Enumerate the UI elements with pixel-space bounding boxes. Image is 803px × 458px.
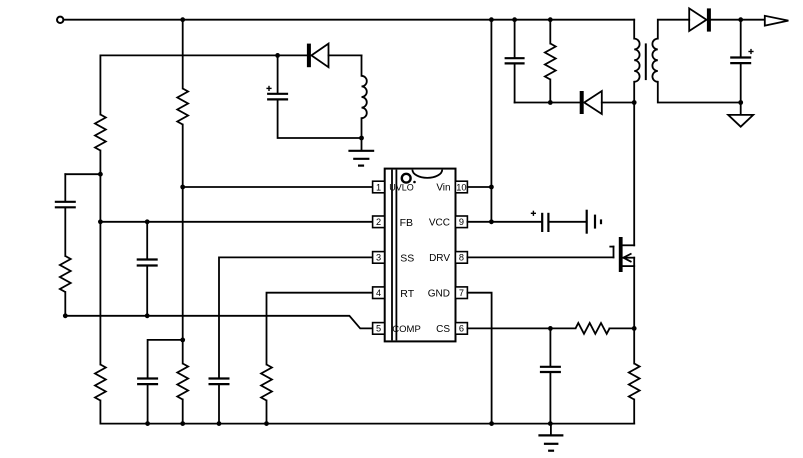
diode D1 bbox=[307, 44, 329, 68]
inductor L1 bbox=[362, 76, 367, 118]
wire L1 bottom bbox=[361, 118, 363, 138]
svg-text:Vin: Vin bbox=[436, 183, 450, 194]
node jog y340 bbox=[180, 338, 185, 343]
node bus/GND pin bbox=[489, 421, 494, 426]
wire C4 bottom bbox=[218, 385, 220, 424]
resistor R8 bbox=[576, 323, 610, 334]
wire pin7 GND down bbox=[467, 293, 491, 424]
output arrow terminal bbox=[765, 16, 789, 26]
svg-text:6: 6 bbox=[459, 324, 464, 334]
wire SS line bbox=[219, 257, 373, 378]
pin 5 box bbox=[373, 323, 385, 335]
node aux bottom bbox=[359, 136, 364, 141]
pin 8 box bbox=[455, 252, 467, 264]
resistor R3 bbox=[60, 256, 71, 292]
svg-text:4: 4 bbox=[376, 288, 381, 298]
node top rail / Vin feed junction bbox=[489, 17, 494, 22]
transformer T1 secondary bbox=[652, 39, 657, 82]
wire C8 bottom bbox=[549, 373, 551, 424]
wire C5 bottom + aux bottom bbox=[278, 100, 362, 138]
capacitor C1 bbox=[55, 202, 76, 208]
wire bottom ground bus bbox=[100, 423, 634, 425]
wire x=100 bottom bbox=[99, 401, 101, 424]
node CS filter bbox=[548, 326, 553, 331]
wire jog y=174 bbox=[65, 173, 100, 175]
wire UVLO column x=183 top bbox=[182, 20, 184, 89]
diode D2 bbox=[580, 91, 602, 114]
pin 3 box bbox=[373, 252, 385, 264]
svg-text:2: 2 bbox=[376, 217, 381, 227]
capacitor C5 polarized bbox=[266, 86, 288, 100]
node output bbox=[738, 17, 743, 22]
svg-text:3: 3 bbox=[376, 253, 381, 263]
node bus/R5 bbox=[180, 421, 185, 426]
node bus/CS filter bbox=[548, 421, 553, 426]
wire aux cap column bbox=[277, 55, 279, 93]
capacitor C8 bbox=[540, 367, 561, 372]
transistor Q1 bbox=[619, 237, 634, 272]
wire snubber bottom to D2 bbox=[515, 102, 580, 104]
wire pin6 CS line bbox=[467, 327, 575, 329]
capacitor C3 bbox=[137, 379, 158, 385]
wire primary top bbox=[633, 20, 635, 39]
transistor Q1 gate bbox=[610, 247, 613, 258]
capacitor C7 polarized VCC bbox=[531, 211, 549, 232]
wire x=183 bottom bbox=[182, 400, 184, 424]
wire C3 bottom bbox=[147, 385, 149, 424]
wire C9 bottom bbox=[740, 64, 742, 103]
node sense column / CS bbox=[632, 326, 637, 331]
wire jog y=340 bbox=[148, 340, 183, 378]
svg-text:UVLO: UVLO bbox=[389, 182, 414, 192]
svg-text:COMP: COMP bbox=[392, 324, 421, 335]
svg-text:5: 5 bbox=[376, 324, 381, 334]
resistor R9 bbox=[629, 364, 640, 400]
op IC U1 body bbox=[385, 169, 456, 342]
pin 4 box bbox=[373, 287, 385, 299]
node output return bbox=[738, 100, 743, 105]
wire CS filter cap column bbox=[549, 328, 551, 366]
node bus/C3 bbox=[145, 421, 150, 426]
resistor R7 bbox=[545, 44, 556, 80]
svg-text:8: 8 bbox=[459, 253, 464, 263]
node top rail / snubber cap junction bbox=[512, 17, 517, 22]
wire pin10 stub bbox=[467, 186, 491, 188]
wire R8 to sense column bbox=[610, 327, 635, 329]
ground sideways VCC bbox=[587, 210, 601, 234]
IC notch bbox=[412, 170, 442, 178]
node top rail / snubber resistor junction bbox=[548, 17, 553, 22]
wire UVLO line bbox=[183, 186, 373, 188]
pin 9 box bbox=[455, 216, 467, 228]
wire R7 bottom bbox=[549, 80, 551, 103]
resistor R5 bbox=[177, 364, 188, 400]
node bus/C4 bbox=[217, 421, 222, 426]
wire aux coil column top bbox=[361, 55, 363, 75]
capacitor C2 bbox=[137, 260, 158, 266]
wire R6 bottom bbox=[266, 401, 268, 424]
diode D3 bbox=[689, 8, 711, 31]
wire C2 column bottom bbox=[146, 266, 148, 316]
node x100/y174 bbox=[98, 172, 103, 177]
wire C2 column top bbox=[146, 222, 148, 259]
ground aux bbox=[348, 138, 374, 166]
wire pin8 DRV to gate bbox=[467, 256, 613, 258]
node UVLO junction bbox=[180, 185, 185, 190]
wire D3 to output bbox=[711, 19, 765, 21]
node aux cap junction bbox=[275, 53, 280, 58]
wire diode D1 to aux coil bbox=[329, 54, 362, 56]
wire pin9 to VCC cap bbox=[467, 221, 541, 223]
svg-text:RT: RT bbox=[400, 288, 414, 300]
pin 1 box bbox=[373, 181, 385, 193]
capacitor C6 bbox=[505, 58, 525, 63]
wire D2 to drain bbox=[602, 102, 634, 104]
wire secondary bottom bbox=[658, 82, 741, 103]
svg-text:VCC: VCC bbox=[429, 218, 450, 229]
wire R3 to comp bus bbox=[64, 292, 66, 316]
resistor R1 bbox=[95, 115, 106, 151]
input terminal bbox=[57, 17, 63, 23]
svg-text:7: 7 bbox=[459, 288, 464, 298]
resistor R6 bbox=[261, 365, 272, 401]
transformer T1 core bbox=[645, 43, 647, 80]
wire x=100 middle bbox=[99, 151, 101, 365]
svg-text:FB: FB bbox=[400, 217, 413, 229]
IC inner double line bbox=[391, 170, 393, 341]
ground output triangle bbox=[728, 103, 753, 127]
wire R9 bottom bbox=[633, 400, 635, 424]
wire top rail bbox=[64, 19, 634, 21]
pin 6 box bbox=[455, 323, 467, 335]
node VCC junction bbox=[489, 219, 494, 224]
wire C7 to ground bbox=[550, 221, 586, 223]
resistor R2 bbox=[177, 89, 188, 125]
transformer T1 primary bbox=[634, 39, 639, 82]
capacitor C9 polarized output bbox=[730, 49, 753, 63]
svg-text:10: 10 bbox=[456, 182, 466, 192]
capacitor C4 bbox=[209, 379, 230, 385]
wire C6 bottom bbox=[514, 64, 516, 103]
svg-text:DRV: DRV bbox=[429, 253, 450, 264]
node snubber RC bottom bbox=[548, 100, 553, 105]
svg-text:SS: SS bbox=[400, 253, 414, 265]
wire output cap column bbox=[740, 20, 742, 57]
wire x=66 to C1 bbox=[64, 174, 66, 201]
node FB / C2 column bbox=[145, 219, 150, 224]
node Vin junction bbox=[489, 185, 494, 190]
node drain / snubber bbox=[632, 100, 637, 105]
pin 10 box bbox=[455, 181, 467, 193]
svg-text:CS: CS bbox=[436, 324, 450, 335]
ground power bottom bbox=[538, 424, 563, 451]
wire secondary top bbox=[658, 20, 689, 39]
node bus/R6 bbox=[264, 421, 269, 426]
node comp bus / C2 bbox=[145, 313, 150, 318]
wire Vin/VCC feed column bbox=[490, 20, 492, 222]
svg-text:9: 9 bbox=[459, 217, 464, 227]
node top rail / UVLO column junction bbox=[180, 17, 185, 22]
wire COMP bus bbox=[65, 316, 372, 329]
wire C1 to R3 bbox=[64, 208, 66, 256]
pin 7 box bbox=[455, 287, 467, 299]
wire snubber cap column bbox=[514, 20, 516, 58]
wire second rail y=55 bbox=[100, 54, 307, 56]
svg-text:GND: GND bbox=[428, 289, 450, 300]
wire snubber R column bbox=[549, 20, 551, 44]
wire x=183 long middle bbox=[182, 125, 184, 364]
node comp bus left corner bbox=[63, 313, 68, 318]
resistor R4 bbox=[95, 365, 106, 401]
pin 2 box bbox=[373, 216, 385, 228]
IC pin1 indicator circle bbox=[402, 174, 411, 183]
wire FB line bbox=[100, 221, 372, 223]
wire primary bottom to drain bbox=[633, 82, 635, 246]
wire left column x=100 upper bbox=[99, 55, 101, 114]
svg-text:1: 1 bbox=[376, 182, 381, 192]
wire source to sense resistor bbox=[633, 258, 635, 364]
node x100/FB bbox=[98, 219, 103, 224]
wire RT line bbox=[267, 293, 373, 365]
